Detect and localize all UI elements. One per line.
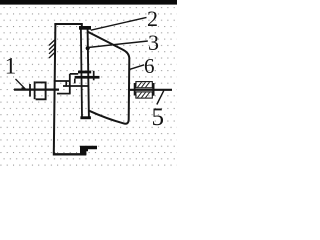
frame hatching [49, 40, 55, 58]
frame top edge [54, 24, 81, 28]
shaft end bar [152, 83, 154, 96]
nut bar 1 [78, 71, 91, 74]
upper bearing box [136, 82, 152, 88]
svg-text:5: 5 [152, 104, 165, 131]
small connector tick [65, 81, 67, 86]
bar2 end tick [93, 71, 95, 81]
leader 5 [157, 91, 164, 105]
svg-text:2: 2 [147, 6, 158, 31]
frame (fixed stand) vertical line [54, 23, 56, 153]
coupling bar b [34, 81, 36, 99]
slider bottom arm [57, 93, 71, 95]
leader 3 [88, 41, 148, 48]
right shaft [130, 89, 173, 91]
svg-text:3: 3 [148, 30, 159, 55]
left input shaft [14, 88, 59, 90]
coupling bar a [29, 84, 31, 97]
nut bar 2 (long, into disc) [75, 76, 100, 79]
node dot (item 3 pointer) [86, 46, 90, 50]
svg-text:1: 1 [5, 54, 16, 79]
svg-text:6: 6 [144, 54, 155, 78]
ram bottom cap [80, 116, 91, 119]
ram (screw) top cap [79, 26, 91, 30]
disc (item 6) outline [88, 32, 129, 124]
lower bearing box [136, 92, 152, 98]
C bracket on shaft [36, 82, 46, 99]
lower guide line [63, 85, 89, 87]
top black bar (page edge) [0, 0, 177, 5]
bar2 left tick [74, 79, 76, 84]
guide Z-wire from frame [54, 74, 78, 94]
ram right line / disc left edge [88, 30, 89, 117]
leader 6 [130, 65, 144, 70]
bottom arrow block [80, 146, 97, 155]
leader 1 [16, 79, 25, 88]
ram left line [81, 30, 82, 117]
bottom wire [54, 152, 86, 154]
bearing tick [134, 83, 136, 96]
leader 2 [91, 17, 147, 30]
